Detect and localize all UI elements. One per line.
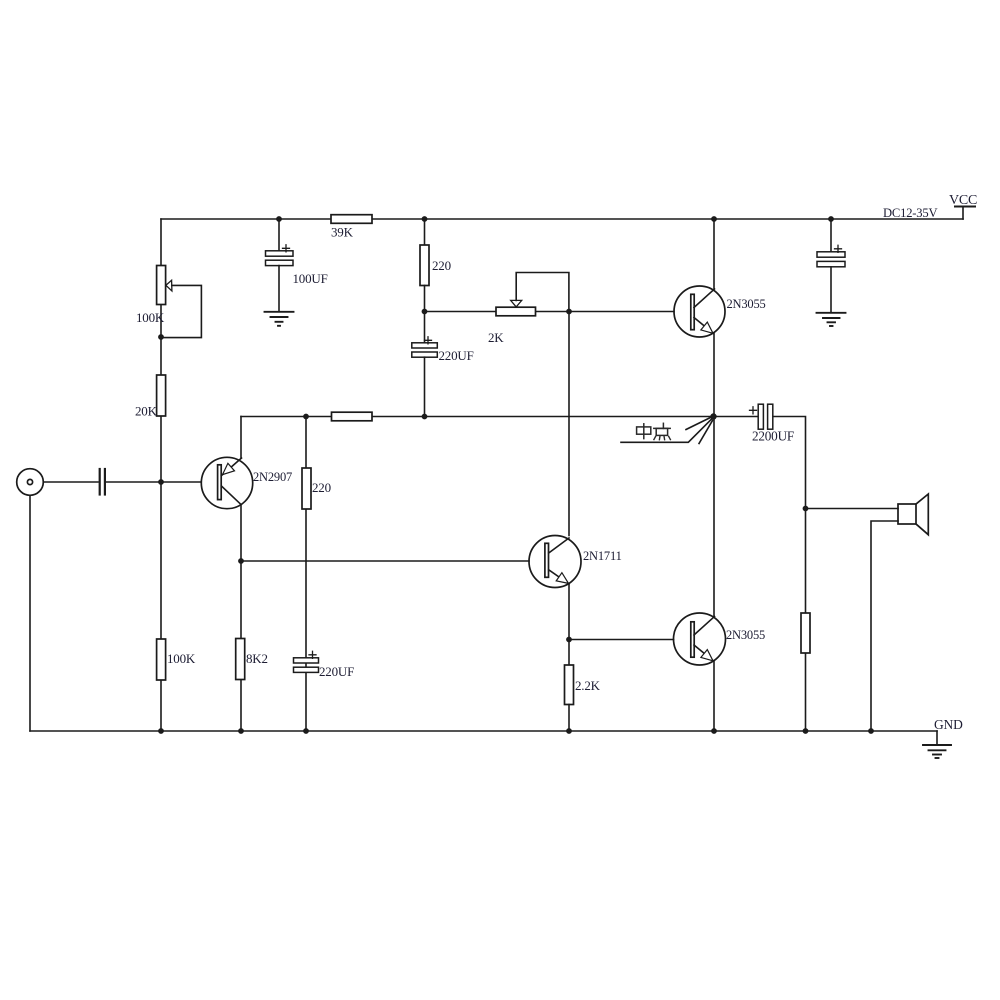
- node midpoint leader: [621, 418, 713, 444]
- svg-text:2N1711: 2N1711: [583, 549, 622, 563]
- resistor speaker branch: [801, 613, 810, 653]
- wire x=424 vertical from rail: [424, 219, 426, 245]
- resistor 39K: [331, 215, 372, 240]
- svg-text:100K: 100K: [167, 651, 196, 666]
- wire cap to base node: [106, 481, 201, 483]
- resistor 2.2K: [565, 665, 601, 731]
- label midpoint 中点: [637, 423, 671, 439]
- potentiometer 100K: [136, 266, 201, 338]
- svg-text:100UF: 100UF: [293, 271, 328, 286]
- wire 2N2907 emitter up: [240, 417, 242, 459]
- wire lower 2N3055 emitter to rail: [713, 662, 715, 732]
- wire speaker feed: [806, 508, 899, 510]
- ground GND: [923, 717, 963, 758]
- svg-text:VCC: VCC: [949, 193, 977, 208]
- svg-text:2N3055: 2N3055: [727, 297, 766, 311]
- svg-text:220UF: 220UF: [439, 348, 474, 363]
- DC12-35V label: [883, 206, 937, 220]
- transistor 2N3055 lower: [674, 613, 766, 665]
- svg-text:100K: 100K: [136, 310, 165, 325]
- resistor 20K: [135, 375, 166, 419]
- svg-text:220: 220: [312, 480, 331, 495]
- wire top supply rail: [161, 218, 963, 220]
- transistor 2N3055 upper: [674, 286, 766, 337]
- wire mid vertical x=306: [305, 417, 307, 732]
- wire cap to feedback row: [424, 357, 426, 416]
- input connector: [17, 469, 44, 496]
- wire 2N2907 collector down: [240, 505, 242, 732]
- svg-text:2.2K: 2.2K: [575, 678, 601, 693]
- resistor 100K lower left: [157, 639, 196, 680]
- svg-text:220UF: 220UF: [319, 664, 354, 679]
- ground below right cap: [817, 313, 846, 326]
- svg-text:39K: 39K: [331, 225, 354, 240]
- capacitor 2200UF: [750, 404, 795, 443]
- wire input to cap: [44, 481, 99, 483]
- wire input connector drop: [29, 496, 31, 732]
- ground below 100UF: [265, 312, 294, 326]
- svg-text:20K: 20K: [135, 404, 158, 419]
- wire feedback row y=417: [241, 416, 758, 418]
- VCC: [949, 193, 977, 219]
- wire lower 2N3055 collector to midpoint: [713, 417, 715, 617]
- capacitor 100UF right: [817, 219, 845, 313]
- wire collector to 2N1711 base: [241, 560, 529, 562]
- resistor 220 upper: [420, 245, 451, 286]
- capacitor 220UF lower: [294, 651, 355, 679]
- wire 2N1711 emitter down: [568, 584, 570, 666]
- wire 2N3055 emitter to midpoint: [713, 334, 715, 417]
- svg-text:DC12-35V: DC12-35V: [883, 206, 937, 220]
- wire 220 to node: [424, 286, 426, 344]
- resistor 220 mid: [302, 468, 331, 509]
- transistor 2N1711: [529, 536, 622, 588]
- capacitor 220UF upper: [412, 337, 474, 363]
- svg-text:8K2: 8K2: [246, 651, 268, 666]
- resistor 8K2: [236, 639, 268, 680]
- potentiometer 2K: [488, 273, 569, 346]
- speaker: [871, 494, 928, 731]
- svg-text:GND: GND: [934, 717, 963, 732]
- svg-text:220: 220: [432, 258, 451, 273]
- capacitor 100UF: [266, 219, 328, 312]
- svg-text:2N2907: 2N2907: [253, 470, 292, 484]
- wire base row y=311.5: [425, 311, 675, 313]
- wire 2N3055 collector to rail: [713, 219, 715, 289]
- wire bottom ground rail: [30, 730, 937, 732]
- resistor feedback horizontal: [332, 412, 373, 421]
- svg-text:2N3055: 2N3055: [726, 628, 765, 642]
- transistor 2N2907: [201, 457, 292, 508]
- wire emitter row to 2N3055 base: [569, 639, 674, 641]
- wire left vertical bus: [160, 219, 162, 731]
- wire 2K loop to 2N1711 collector: [568, 312, 570, 536]
- svg-text:2200UF: 2200UF: [752, 429, 794, 444]
- svg-text:2K: 2K: [488, 330, 504, 345]
- wire 2200UF to speaker branch: [773, 417, 806, 732]
- capacitor input coupling: [100, 469, 105, 495]
